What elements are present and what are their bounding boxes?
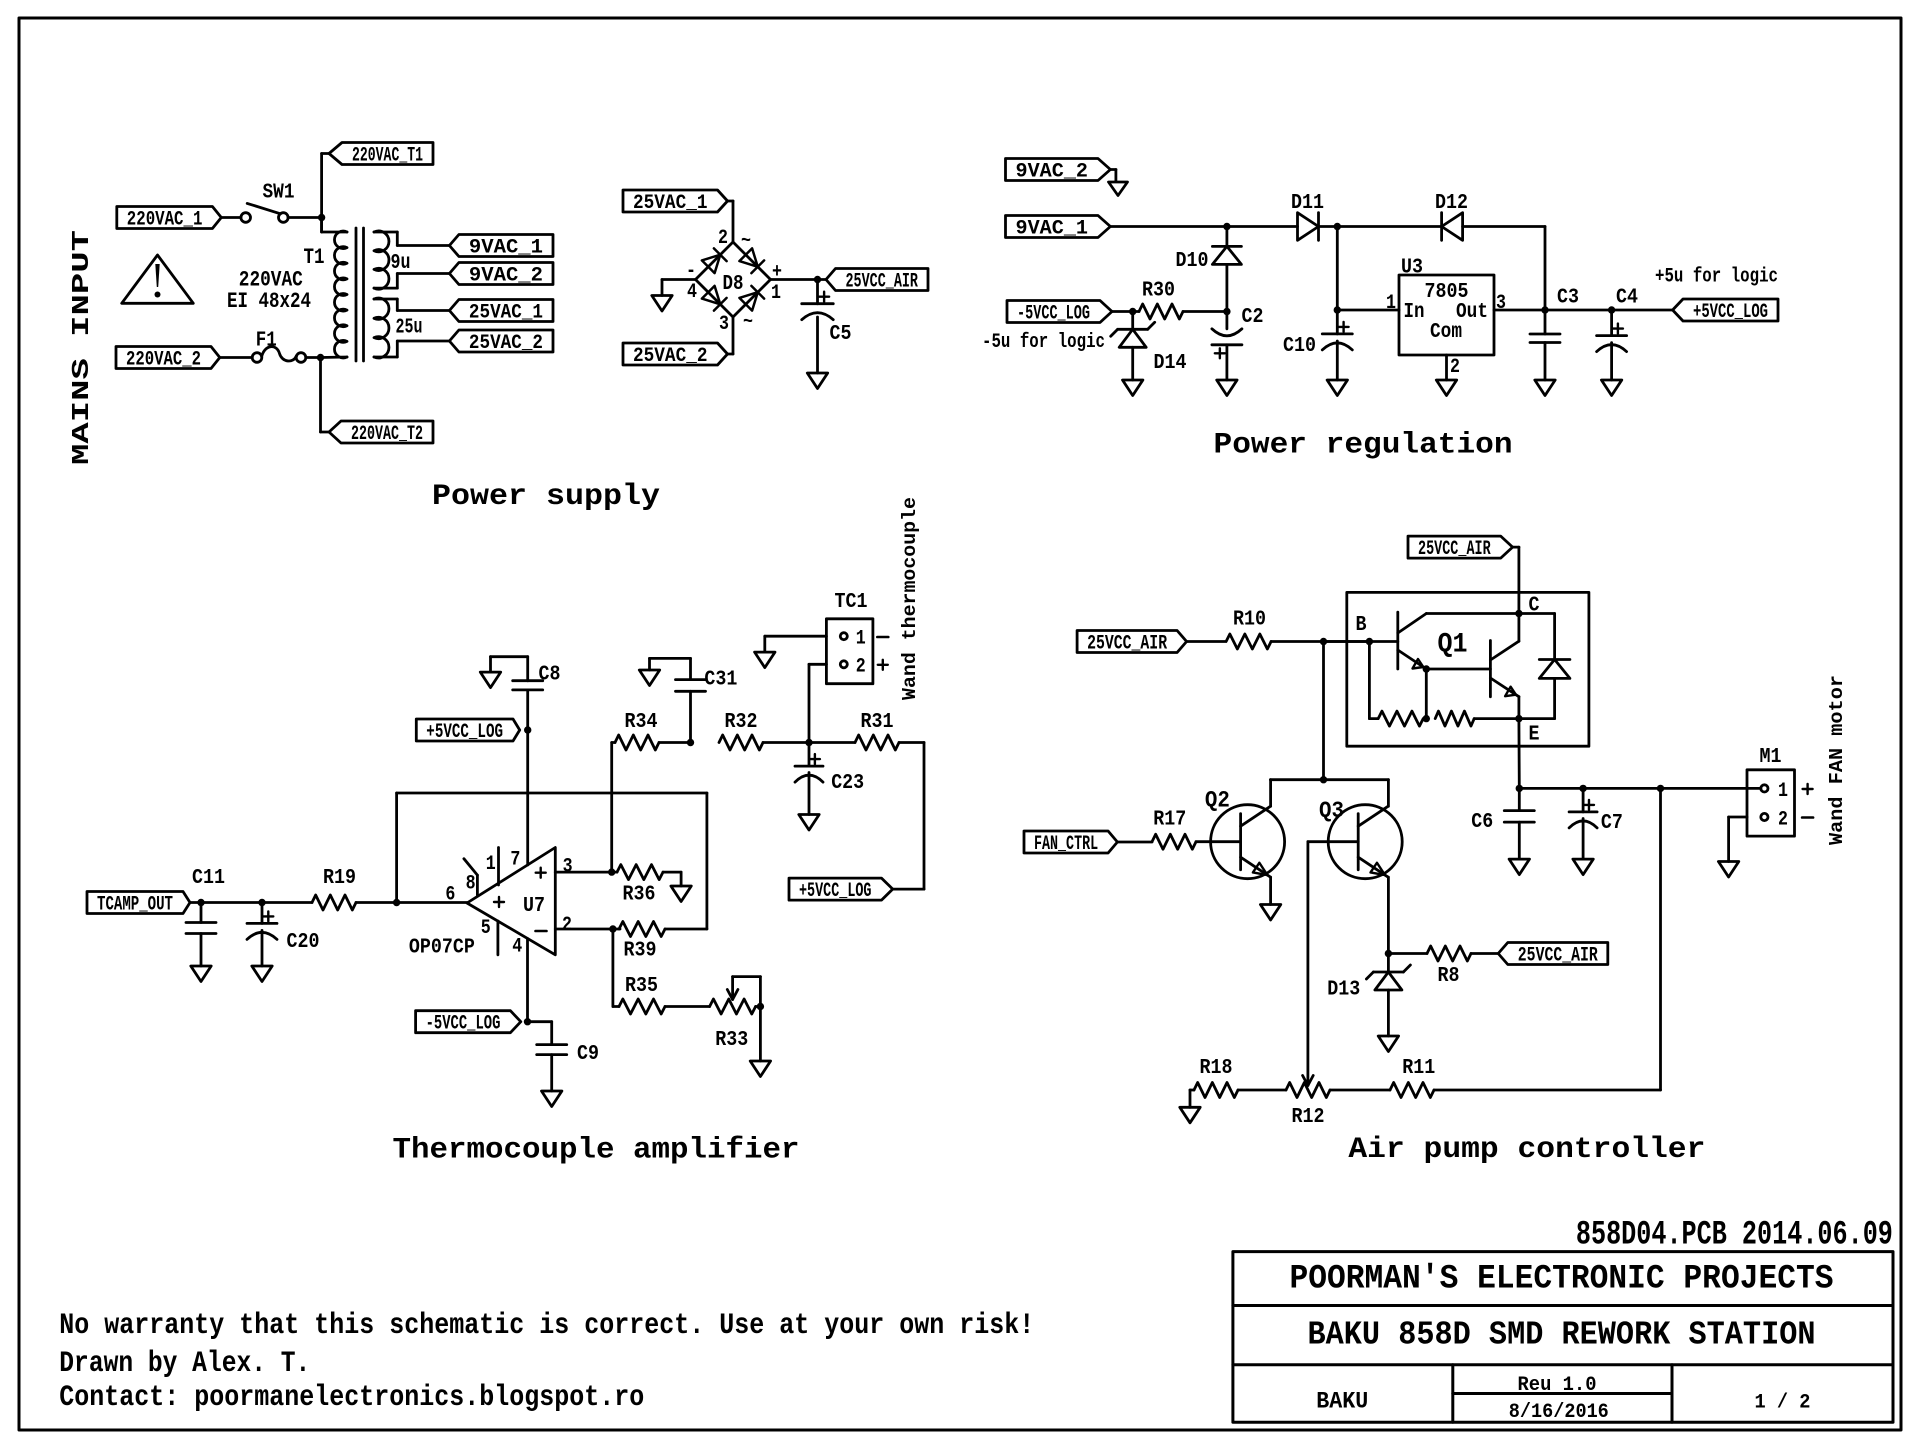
svg-text:Wand FAN motor: Wand FAN motor [1826,675,1848,845]
svg-text:2: 2 [1450,356,1460,379]
svg-text:EI 48x24: EI 48x24 [227,289,311,314]
svg-text:2: 2 [856,656,866,679]
svg-text:Thermocouple amplifier: Thermocouple amplifier [393,1134,800,1168]
svg-text:Air pump controller: Air pump controller [1348,1133,1705,1167]
svg-text:9u: 9u [391,252,411,275]
svg-text:R39: R39 [624,940,657,963]
svg-text:1: 1 [486,853,496,876]
svg-text:25VCC_AIR: 25VCC_AIR [846,271,919,294]
svg-text:R31: R31 [861,711,894,734]
svg-text:T1: T1 [304,245,325,270]
svg-text:R35: R35 [625,975,658,998]
svg-text:+5VCC_LOG: +5VCC_LOG [426,721,503,744]
svg-text:220VAC_T2: 220VAC_T2 [351,423,423,446]
svg-text:25VCC_AIR: 25VCC_AIR [1418,538,1491,561]
svg-text:9VAC_2: 9VAC_2 [469,265,543,288]
svg-text:R19: R19 [323,867,356,890]
svg-text:B: B [1356,614,1367,637]
svg-text:D11: D11 [1291,192,1324,215]
svg-text:C5: C5 [830,323,852,346]
svg-text:8: 8 [466,872,476,895]
svg-text:220VAC_2: 220VAC_2 [126,349,201,372]
svg-text:Q3: Q3 [1319,798,1344,824]
svg-text:C6: C6 [1471,811,1493,834]
svg-text:C7: C7 [1601,812,1623,835]
svg-text:25VAC_2: 25VAC_2 [469,332,543,355]
svg-text:858D04.PCB 2014.06.09: 858D04.PCB 2014.06.09 [1576,1216,1893,1254]
svg-text:R10: R10 [1233,609,1266,632]
svg-text:9VAC_1: 9VAC_1 [1016,218,1089,241]
svg-text:R33: R33 [715,1029,748,1052]
svg-text:R11: R11 [1402,1057,1435,1080]
svg-text:D13: D13 [1327,978,1360,1001]
svg-text:25VAC_1: 25VAC_1 [633,192,708,215]
svg-text:Com: Com [1430,321,1462,344]
svg-text:9VAC_2: 9VAC_2 [1016,161,1089,184]
svg-text:R12: R12 [1292,1106,1325,1129]
svg-text:Q2: Q2 [1205,788,1230,814]
svg-text:8/16/2016: 8/16/2016 [1509,1401,1609,1424]
svg-text:C11: C11 [192,867,225,890]
svg-text:2: 2 [562,914,572,937]
svg-text:Drawn by Alex. T.: Drawn by Alex. T. [59,1347,310,1381]
svg-text:MAINS INPUT: MAINS INPUT [69,230,96,465]
svg-text:25VCC_AIR: 25VCC_AIR [1518,945,1598,968]
svg-text:F1: F1 [256,329,277,352]
svg-text:25VCC_AIR: 25VCC_AIR [1087,633,1167,656]
svg-text:R32: R32 [725,711,758,734]
svg-text:1: 1 [1778,780,1788,803]
svg-text:~: ~ [741,230,751,253]
svg-text:C20: C20 [287,931,320,954]
svg-text:SW1: SW1 [263,182,295,205]
svg-text:+5VCC_LOG: +5VCC_LOG [799,880,872,903]
svg-text:TC1: TC1 [835,591,868,614]
svg-text:-5VCC_LOG: -5VCC_LOG [426,1013,501,1036]
svg-text:1: 1 [771,282,781,305]
svg-text:25VAC_1: 25VAC_1 [469,302,543,325]
svg-text:~: ~ [743,311,753,334]
svg-text:2: 2 [1778,809,1788,832]
svg-text:C3: C3 [1557,287,1579,310]
svg-text:C9: C9 [577,1043,599,1066]
svg-text:R8: R8 [1438,965,1460,988]
svg-text:Power supply: Power supply [432,480,660,514]
svg-text:R17: R17 [1153,809,1186,832]
svg-text:BAKU 858D SMD REWORK STATION: BAKU 858D SMD REWORK STATION [1308,1317,1816,1354]
svg-text:D14: D14 [1154,352,1187,375]
svg-text:R34: R34 [625,711,658,734]
svg-text:3: 3 [563,856,573,879]
svg-text:4: 4 [687,281,697,304]
svg-text:-5VCC_LOG: -5VCC_LOG [1017,303,1090,326]
svg-text:OP07CP: OP07CP [409,936,475,959]
svg-text:No warranty that this schemati: No warranty that this schematic is corre… [59,1309,1034,1343]
svg-text:1 / 2: 1 / 2 [1755,1392,1811,1415]
svg-text:25u: 25u [396,317,423,340]
svg-text:R36: R36 [623,884,656,907]
svg-text:R30: R30 [1142,280,1175,303]
svg-text:Reu 1.0: Reu 1.0 [1518,1374,1597,1397]
svg-text:C4: C4 [1616,287,1638,310]
svg-text:+5u for logic: +5u for logic [1655,266,1778,289]
svg-text:-5u for logic: -5u for logic [982,331,1105,354]
svg-text:25VAC_2: 25VAC_2 [633,345,708,368]
svg-text:5: 5 [481,917,491,940]
svg-text:POORMAN'S ELECTRONIC PROJECTS: POORMAN'S ELECTRONIC PROJECTS [1290,1261,1834,1299]
svg-text:BAKU: BAKU [1316,1389,1368,1415]
svg-text:3: 3 [1496,292,1506,315]
svg-text:C23: C23 [831,772,864,795]
svg-text:E: E [1529,724,1540,747]
svg-text:Wand thermocouple: Wand thermocouple [899,497,921,700]
svg-text:M1: M1 [1760,746,1782,769]
svg-text:1: 1 [856,628,866,651]
svg-text:D12: D12 [1435,192,1468,215]
svg-text:7: 7 [510,848,520,871]
svg-text:C8: C8 [539,664,561,687]
svg-text:D8: D8 [723,273,744,296]
svg-text:U7: U7 [523,895,545,918]
svg-text:U3: U3 [1401,257,1423,280]
svg-text:Power regulation: Power regulation [1214,429,1513,463]
svg-text:C2: C2 [1242,306,1264,329]
svg-text:R18: R18 [1200,1057,1233,1080]
svg-text:TCAMP_OUT: TCAMP_OUT [97,894,173,917]
svg-text:+5VCC_LOG: +5VCC_LOG [1693,301,1768,324]
svg-text:1: 1 [1386,292,1396,315]
svg-text:D10: D10 [1176,250,1209,273]
svg-text:C31: C31 [704,668,737,691]
svg-text:Contact: poormanelectronics.bl: Contact: poormanelectronics.blogspot.ro [59,1381,644,1415]
svg-text:2: 2 [718,227,728,250]
svg-text:4: 4 [512,936,522,959]
svg-text:9VAC_1: 9VAC_1 [469,237,543,260]
svg-text:In: In [1404,301,1425,324]
svg-text:C10: C10 [1283,335,1316,358]
svg-text:3: 3 [719,313,729,336]
svg-text:220VAC_1: 220VAC_1 [127,209,203,232]
svg-text:220VAC_T1: 220VAC_T1 [352,145,423,168]
svg-text:6: 6 [445,884,455,907]
svg-text:FAN_CTRL: FAN_CTRL [1034,833,1098,856]
svg-text:Q1: Q1 [1438,630,1468,661]
